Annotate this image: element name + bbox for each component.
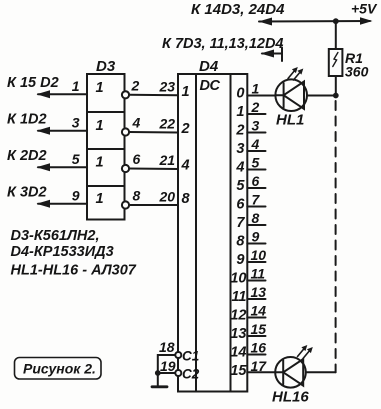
svg-text:4: 4 [181, 158, 190, 174]
svg-text:14: 14 [230, 345, 246, 361]
svg-text:8: 8 [236, 234, 245, 250]
svg-text:18: 18 [159, 339, 175, 355]
svg-text:HL16: HL16 [272, 389, 309, 406]
svg-text:6: 6 [133, 151, 141, 167]
output 12 / pin 14 [230, 303, 266, 324]
svg-text:1: 1 [96, 118, 104, 134]
svg-text:1: 1 [182, 84, 190, 100]
svg-text:3: 3 [236, 141, 244, 157]
svg-text:360: 360 [345, 64, 369, 80]
svg-text:13: 13 [230, 326, 246, 342]
LED HL16 [275, 357, 306, 388]
wire gate2 to D4 [129, 131, 178, 134]
wire gate4 to D4 [129, 204, 178, 206]
HL1 light arrows [288, 67, 303, 80]
svg-text:1: 1 [96, 155, 104, 171]
svg-text:D4: D4 [199, 58, 219, 75]
svg-text:9: 9 [252, 229, 260, 245]
output 14 / pin 16 [230, 340, 266, 361]
wire gate1 to D4 [129, 94, 178, 96]
svg-text:К 2D2: К 2D2 [7, 148, 47, 164]
svg-text:7: 7 [252, 192, 261, 208]
arrow K3D2 [37, 200, 51, 208]
junction R1 / HL1 anode [333, 93, 339, 99]
output 4 / pin 5 [235, 155, 265, 176]
svg-text:2: 2 [251, 99, 260, 115]
inverter bubble pin 4 [122, 128, 129, 135]
arrow +5V end [360, 17, 373, 25]
svg-text:8: 8 [252, 210, 260, 226]
svg-text:4: 4 [251, 136, 260, 152]
svg-text:15: 15 [230, 363, 247, 379]
output 9 / pin 10 [236, 247, 266, 268]
svg-text:1: 1 [252, 81, 260, 97]
output 5 / pin 6 [236, 173, 265, 194]
svg-text:+5V: +5V [351, 1, 378, 17]
svg-text:D4-КР1533ИД3: D4-КР1533ИД3 [11, 244, 114, 260]
wire input 3 [38, 130, 87, 132]
svg-text:5: 5 [252, 155, 260, 171]
arrow K1D2 [37, 127, 51, 135]
wire +5V rail [259, 20, 370, 23]
svg-text:12: 12 [230, 308, 246, 324]
svg-text:1: 1 [96, 80, 104, 96]
wire input 9 [38, 203, 87, 205]
svg-text:10: 10 [230, 271, 246, 287]
svg-text:0: 0 [236, 86, 244, 102]
svg-text:D3: D3 [96, 58, 116, 75]
inverter bubble pin 6 [122, 165, 129, 172]
svg-text:11: 11 [231, 289, 246, 305]
svg-text:15: 15 [251, 321, 267, 337]
svg-text:10: 10 [251, 247, 267, 263]
inverter bubble C1 [175, 352, 181, 358]
rail tick [281, 48, 283, 62]
output 10 / pin 11 [230, 266, 265, 287]
svg-text:2: 2 [235, 123, 244, 139]
svg-text:DC: DC [200, 78, 221, 94]
svg-text:6: 6 [252, 173, 260, 189]
svg-text:8: 8 [182, 191, 191, 207]
IC D4 box [178, 74, 247, 392]
wire to common rail [262, 53, 282, 55]
svg-text:22: 22 [159, 116, 176, 132]
svg-text:5: 5 [236, 178, 245, 194]
output 0 / pin 1 [236, 81, 275, 102]
svg-text:1: 1 [96, 191, 104, 207]
svg-text:Рисунок 2.: Рисунок 2. [23, 361, 96, 377]
svg-text:19: 19 [160, 358, 176, 374]
svg-text:3: 3 [252, 118, 260, 134]
wire HL1 anode [307, 95, 336, 97]
wire C2 strobe [158, 372, 176, 374]
wire gate3 to D4 [129, 168, 178, 171]
wire input 1 [38, 93, 87, 95]
svg-text:16: 16 [251, 340, 267, 356]
wire C1 strobe [158, 355, 176, 373]
svg-text:HL1-HL16 - АЛ307: HL1-HL16 - АЛ307 [11, 263, 137, 279]
svg-text:4: 4 [132, 115, 141, 131]
LED HL1 [275, 79, 307, 111]
output 8 / pin 9 [236, 229, 265, 250]
resistor R1 [329, 49, 343, 76]
svg-text:7: 7 [236, 215, 245, 231]
svg-text:5: 5 [72, 151, 80, 167]
wire R1 bottom lead [335, 76, 337, 96]
svg-text:D3-К561ЛН2,: D3-К561ЛН2, [11, 228, 100, 244]
output 15 / pin 17 [230, 358, 275, 379]
svg-text:2: 2 [181, 121, 190, 137]
figure caption box [15, 358, 102, 380]
svg-text:14: 14 [251, 303, 267, 319]
svg-text:6: 6 [236, 197, 245, 213]
svg-text:К 3D2: К 3D2 [7, 185, 47, 201]
svg-text:К 1D2: К 1D2 [7, 112, 47, 128]
svg-text:9: 9 [236, 252, 244, 268]
arrow K2D2 [37, 163, 51, 171]
output 11 / pin 13 [231, 284, 266, 305]
svg-text:1: 1 [72, 78, 80, 94]
HL16 light arrows [298, 345, 313, 359]
svg-text:К 14D3, 24D4: К 14D3, 24D4 [191, 1, 285, 18]
wire to ground [157, 373, 159, 386]
arrow to K14D3 [259, 18, 273, 26]
svg-text:C2: C2 [182, 367, 200, 382]
output 6 / pin 7 [236, 192, 265, 213]
junction on +5V rail [333, 18, 339, 24]
wire R1 top lead [335, 21, 337, 49]
wire HL16 anode [306, 371, 336, 373]
wire dashed common anode line [335, 101, 337, 372]
svg-text:1: 1 [236, 104, 244, 120]
svg-text:8: 8 [133, 188, 141, 204]
IC D3 box [87, 74, 125, 220]
junction C1/C2 [155, 370, 161, 376]
svg-text:13: 13 [251, 284, 267, 300]
svg-text:11: 11 [251, 266, 266, 282]
svg-text:HL1: HL1 [276, 112, 304, 129]
output 2 / pin 3 [235, 118, 265, 139]
ground [152, 385, 167, 388]
svg-text:21: 21 [159, 152, 176, 168]
wire input 5 [38, 166, 87, 168]
inverter bubble pin 8 [122, 201, 129, 208]
svg-text:9: 9 [72, 188, 80, 204]
svg-text:К 15 D2: К 15 D2 [7, 75, 59, 91]
inverter bubble C2 [175, 370, 181, 376]
svg-text:К 7D3, 11,13,12D4: К 7D3, 11,13,12D4 [162, 36, 284, 52]
output 1 / pin 2 [236, 99, 265, 120]
svg-text:C1: C1 [182, 349, 199, 364]
svg-text:3: 3 [72, 115, 80, 131]
svg-text:4: 4 [235, 160, 244, 176]
svg-text:20: 20 [159, 189, 176, 205]
output 7 / pin 8 [236, 210, 265, 231]
output 3 / pin 4 [236, 136, 265, 157]
arrow K15D2 [37, 90, 51, 98]
output 13 / pin 15 [230, 321, 266, 342]
svg-text:23: 23 [159, 79, 176, 95]
svg-text:2: 2 [131, 78, 140, 94]
inverter bubble pin 2 [122, 91, 129, 98]
arrow to K7D3 [261, 50, 275, 58]
